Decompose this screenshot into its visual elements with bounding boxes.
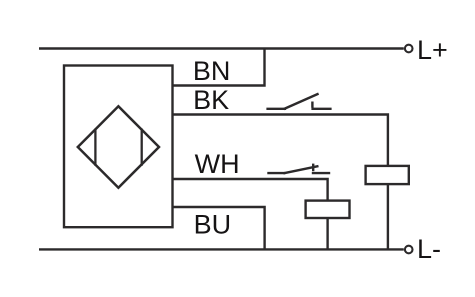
- wire R1 to L-: [387, 184, 389, 249]
- svg-text:WH: WH: [195, 149, 240, 179]
- load R2 (WH output): [306, 201, 350, 218]
- svg-text:BU: BU: [194, 209, 232, 239]
- wire WH: [173, 179, 328, 201]
- sensor box U1 outline: [64, 66, 173, 228]
- svg-text:L-: L-: [417, 234, 441, 264]
- switch WH normally-closed contact: [267, 164, 330, 174]
- svg-text:BK: BK: [193, 85, 229, 115]
- diamond right triangle chord: [141, 129, 143, 166]
- terminal L+: [405, 45, 413, 53]
- wire BU to L-: [173, 207, 265, 249]
- wire L- rail: [39, 248, 404, 250]
- terminal L-: [405, 246, 413, 254]
- switch BK normally-open contact: [266, 94, 331, 110]
- svg-text:L+: L+: [417, 35, 448, 65]
- wire BK: [173, 115, 388, 166]
- wire R2 to L-: [326, 218, 328, 249]
- diamond left triangle chord: [94, 129, 96, 166]
- proximity sensor diamond: [78, 106, 159, 187]
- wire BN to L+: [173, 49, 265, 86]
- wire L+ rail: [39, 47, 404, 49]
- load R1 (BK output): [366, 166, 409, 184]
- svg-text:BN: BN: [193, 56, 231, 86]
